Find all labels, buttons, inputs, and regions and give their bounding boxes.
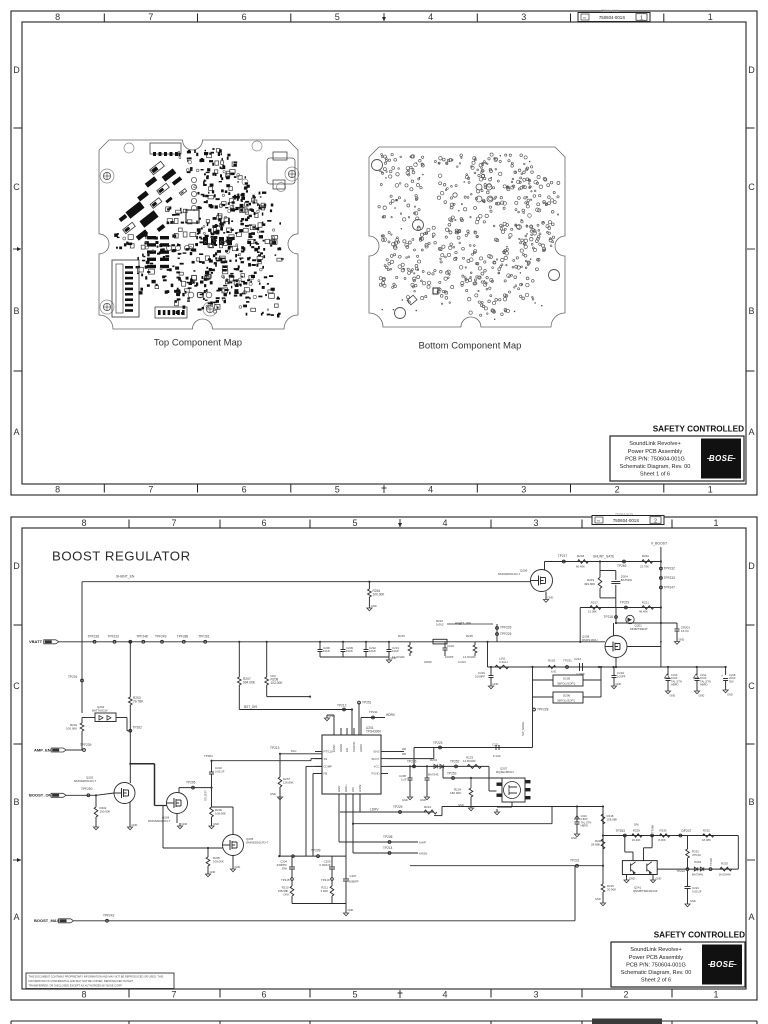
svg-text:+: + xyxy=(721,674,723,678)
svg-text:GND: GND xyxy=(270,792,276,796)
svg-text:GND: GND xyxy=(548,596,554,600)
svg-text:PCB P/N: 750604-001G: PCB P/N: 750604-001G xyxy=(626,962,686,968)
svg-text:7: 7 xyxy=(148,484,153,494)
svg-text:1: 1 xyxy=(640,15,643,21)
svg-text:BA754W: BA754W xyxy=(692,873,703,877)
svg-text:TP252: TP252 xyxy=(450,760,460,764)
svg-text:SW_NODE: SW_NODE xyxy=(521,722,525,736)
svg-text:1: 1 xyxy=(713,518,718,528)
svg-text:0.002: 0.002 xyxy=(436,622,444,626)
svg-text:A: A xyxy=(13,912,19,922)
svg-text:R218: R218 xyxy=(577,554,585,558)
svg-text:SHUNT_GATE: SHUNT_GATE xyxy=(593,555,614,559)
svg-text:TPF228: TPF228 xyxy=(537,708,549,712)
svg-text:RQ3E180GN: RQ3E180GN xyxy=(496,770,514,774)
svg-text:TP209: TP209 xyxy=(311,849,321,853)
svg-text:D: D xyxy=(748,65,755,75)
svg-text:103.00K: 103.00K xyxy=(271,681,284,685)
svg-text:SoundLink Revolve+: SoundLink Revolve+ xyxy=(629,441,680,447)
svg-text:R212: R212 xyxy=(424,805,432,809)
svg-text:8: 8 xyxy=(81,518,86,528)
svg-text:5: 5 xyxy=(352,989,357,999)
svg-text:GND+: GND+ xyxy=(344,784,348,792)
svg-text:BOSE: BOSE xyxy=(709,454,734,463)
svg-text:TPF233: TPF233 xyxy=(108,635,120,639)
svg-text:DNI: DNI xyxy=(284,892,289,896)
svg-text:4: 4 xyxy=(428,12,433,22)
svg-text:66.40K: 66.40K xyxy=(576,565,585,569)
svg-text:Power PCB Assembly: Power PCB Assembly xyxy=(628,449,683,455)
svg-text:100.00K: 100.00K xyxy=(100,809,111,813)
svg-text:GND: GND xyxy=(699,694,705,698)
svg-text:13.0OHM: 13.0OHM xyxy=(463,655,476,659)
svg-text:HDRV: HDRV xyxy=(359,744,363,752)
svg-text:GND: GND xyxy=(629,877,635,881)
svg-text:4: 4 xyxy=(428,484,433,494)
svg-text:3.3UH: 3.3UH xyxy=(499,660,508,664)
svg-text:BOSE: BOSE xyxy=(710,960,735,969)
svg-text:7: 7 xyxy=(171,989,176,999)
svg-text:2: 2 xyxy=(615,484,620,494)
svg-text:BAT54W: BAT54W xyxy=(621,578,633,582)
svg-text:GND: GND xyxy=(616,682,622,686)
svg-text:C203: C203 xyxy=(447,644,454,648)
svg-text:DAC: DAC xyxy=(291,749,297,753)
svg-text:R221: R221 xyxy=(642,600,650,604)
svg-text:100.00K: 100.00K xyxy=(213,859,224,863)
svg-text:HBPD: HBPD xyxy=(581,824,589,828)
svg-text:5: 5 xyxy=(335,484,340,494)
svg-text:TRANSFERRED, OR DISCLOSED EXCE: TRANSFERRED, OR DISCLOSED EXCEPT AS AUTH… xyxy=(29,983,123,987)
svg-text:TP201: TP201 xyxy=(68,675,78,679)
svg-text:BOOT: BOOT xyxy=(372,757,380,761)
svg-text:6.1UF: 6.1UF xyxy=(493,754,501,758)
svg-text:499.80K: 499.80K xyxy=(584,582,595,586)
svg-text:1: 1 xyxy=(708,484,713,494)
svg-text:8.06K: 8.06K xyxy=(658,838,665,842)
svg-text:29.7BK: 29.7BK xyxy=(133,699,144,703)
svg-text:18.08K: 18.08K xyxy=(702,838,711,842)
svg-text:R217: R217 xyxy=(591,601,599,605)
svg-text:C: C xyxy=(748,182,755,192)
svg-text:GND: GND xyxy=(690,899,696,903)
svg-text:1000PF: 1000PF xyxy=(475,674,485,678)
svg-text:R232: R232 xyxy=(703,829,710,833)
svg-text:A: A xyxy=(748,912,754,922)
svg-text:ISNS: ISNS xyxy=(373,750,380,754)
svg-text:1080PF: 1080PF xyxy=(349,879,359,883)
svg-text:TP221: TP221 xyxy=(570,859,580,863)
svg-text:750604-001S: 750604-001S xyxy=(601,9,619,13)
svg-text:DMN62D0LFD-7: DMN62D0LFD-7 xyxy=(246,841,269,845)
svg-text:6: 6 xyxy=(261,518,266,528)
svg-text:DMN62D0LFD-7: DMN62D0LFD-7 xyxy=(498,572,521,576)
svg-text:COMP: COMP xyxy=(324,765,333,769)
svg-text:BA754S: BA754S xyxy=(428,773,439,777)
svg-text:D205: D205 xyxy=(563,677,571,681)
svg-text:TPF238: TPF238 xyxy=(88,635,100,639)
svg-text:TP219: TP219 xyxy=(620,601,630,605)
svg-text:TP231: TP231 xyxy=(563,659,572,663)
svg-text:LOAN: LOAN xyxy=(458,660,466,664)
svg-text:TPF226: TPF226 xyxy=(500,626,512,630)
svg-text:BAT760CW: BAT760CW xyxy=(92,708,108,712)
svg-text:TP229: TP229 xyxy=(393,805,403,809)
svg-text:B: B xyxy=(13,797,19,807)
svg-text:TP205: TP205 xyxy=(186,781,196,785)
svg-text:10UF: 10UF xyxy=(346,649,353,653)
svg-text:THIS DOCUMENT CONTAINS PROPRIE: THIS DOCUMENT CONTAINS PROPRIETARY INFOR… xyxy=(29,975,164,979)
svg-text:SS_RST: SS_RST xyxy=(204,790,208,801)
svg-text:3: 3 xyxy=(521,484,526,494)
svg-text:A: A xyxy=(748,427,754,437)
svg-text:GND: GND xyxy=(329,714,335,718)
svg-text:KHIP: KHIP xyxy=(419,841,426,845)
svg-text:180.90K: 180.90K xyxy=(450,791,461,795)
svg-text:Sheet 1 of 6: Sheet 1 of 6 xyxy=(640,472,670,478)
svg-text:GND: GND xyxy=(595,897,601,901)
svg-text:6.81: 6.81 xyxy=(551,670,557,674)
svg-text:694.00K: 694.00K xyxy=(243,680,256,684)
svg-text:PGOOD: PGOOD xyxy=(352,742,356,752)
svg-text:Top Component Map: Top Component Map xyxy=(154,338,242,349)
svg-text:16.0OHM: 16.0OHM xyxy=(719,873,732,877)
svg-text:C207: C207 xyxy=(350,874,357,878)
svg-text:TP904: TP904 xyxy=(204,754,213,758)
svg-text:Schematic Diagram, Rev. 00: Schematic Diagram, Rev. 00 xyxy=(620,464,691,470)
svg-text:TP210: TP210 xyxy=(321,878,330,882)
svg-text:R220: R220 xyxy=(548,659,556,663)
svg-text:6: 6 xyxy=(242,484,247,494)
svg-text:DP207: DP207 xyxy=(682,829,692,833)
svg-text:10.0OHM: 10.0OHM xyxy=(392,655,405,659)
svg-text:R222: R222 xyxy=(642,554,650,558)
svg-text:475.00: 475.00 xyxy=(692,853,701,857)
svg-text:R225: R225 xyxy=(466,634,473,638)
svg-text:GND: GND xyxy=(348,908,354,912)
svg-text:GND: GND xyxy=(571,836,577,840)
svg-text:Schematic Diagram, Rev. 00: Schematic Diagram, Rev. 00 xyxy=(621,970,692,976)
svg-text:BOOST REGULATOR: BOOST REGULATOR xyxy=(52,549,191,564)
svg-text:100PF: 100PF xyxy=(445,655,454,659)
svg-text:LDRV: LDRV xyxy=(370,808,379,812)
svg-text:100.00K: 100.00K xyxy=(373,592,386,596)
svg-text:GND: GND xyxy=(679,638,685,642)
svg-text:3: 3 xyxy=(533,518,538,528)
svg-text:TPF250: TPF250 xyxy=(81,787,93,791)
svg-text:0.033UF: 0.033UF xyxy=(319,863,330,867)
svg-text:35V: 35V xyxy=(729,679,734,683)
svg-text:TPF232: TPF232 xyxy=(664,567,676,571)
svg-text:TP208: TP208 xyxy=(383,835,393,839)
svg-text:R215: R215 xyxy=(398,634,405,638)
svg-text:FB: FB xyxy=(324,772,328,776)
svg-text:0.01UF: 0.01UF xyxy=(692,889,702,893)
svg-text:4: 4 xyxy=(442,518,447,528)
svg-text:Sheet 2 of 6: Sheet 2 of 6 xyxy=(641,978,671,984)
svg-text:750604-001S: 750604-001S xyxy=(599,15,625,20)
svg-text:750604-001S: 750604-001S xyxy=(615,512,633,516)
svg-text:TPF286: TPF286 xyxy=(177,635,189,639)
svg-text:PCB P/N: 750604-001G: PCB P/N: 750604-001G xyxy=(625,456,685,462)
svg-text:12.8OHM: 12.8OHM xyxy=(463,759,476,763)
svg-text:8: 8 xyxy=(55,484,60,494)
svg-text:5: 5 xyxy=(352,518,357,528)
svg-text:DMN62D0LFD-7: DMN62D0LFD-7 xyxy=(74,779,97,783)
svg-text:INFORMATION IS CONFIDENTIAL AN: INFORMATION IS CONFIDENTIAL AND MAY NOT … xyxy=(29,979,134,983)
svg-text:TPF248: TPF248 xyxy=(136,635,148,639)
svg-text:3: 3 xyxy=(533,989,538,999)
svg-text:108.08K: 108.08K xyxy=(215,811,226,815)
svg-text:B: B xyxy=(748,797,754,807)
svg-text:AMP_EN: AMP_EN xyxy=(34,747,51,752)
svg-text:4: 4 xyxy=(442,989,447,999)
svg-text:D: D xyxy=(748,561,755,571)
svg-text:DMP2160U: DMP2160U xyxy=(582,638,598,642)
svg-text:1: 1 xyxy=(708,12,713,22)
svg-text:Bottom Component Map: Bottom Component Map xyxy=(419,341,522,352)
svg-text:TP211: TP211 xyxy=(369,710,378,714)
svg-text:A: A xyxy=(13,427,19,437)
svg-text:10UF: 10UF xyxy=(323,649,330,653)
svg-text:D: D xyxy=(13,65,20,75)
svg-text:B: B xyxy=(13,306,19,316)
svg-text:8: 8 xyxy=(81,989,86,999)
svg-text:QNMBT3904W13F: QNMBT3904W13F xyxy=(633,889,658,893)
svg-text:7: 7 xyxy=(171,518,176,528)
svg-text:BOOST_MAX: BOOST_MAX xyxy=(34,918,60,923)
svg-text:TPF247: TPF247 xyxy=(664,586,676,590)
svg-text:TPF242: TPF242 xyxy=(103,914,115,918)
svg-text:TPF239: TPF239 xyxy=(80,743,92,747)
svg-text:GND: GND xyxy=(132,823,138,827)
svg-text:TP223: TP223 xyxy=(433,741,443,745)
svg-text:10UF: 10UF xyxy=(369,649,376,653)
svg-text:D203: D203 xyxy=(694,860,701,864)
svg-text:100.00K: 100.00K xyxy=(66,726,77,730)
svg-text:TP213: TP213 xyxy=(270,746,280,750)
svg-text:PGND: PGND xyxy=(371,772,379,776)
svg-text:TPF233: TPF233 xyxy=(664,576,676,580)
svg-text:BOOST_ON: BOOST_ON xyxy=(29,793,52,798)
svg-text:TP216: TP216 xyxy=(407,760,417,764)
svg-text:1UF: 1UF xyxy=(401,777,407,781)
svg-text:VCC: VCC xyxy=(374,765,380,769)
svg-text:HVATT_IND: HVATT_IND xyxy=(455,621,472,625)
svg-text:10UF: 10UF xyxy=(392,649,399,653)
svg-text:GND: GND xyxy=(235,865,241,869)
svg-text:SAFETY CONTROLLED: SAFETY CONTROLLED xyxy=(654,931,745,940)
svg-text:D201: D201 xyxy=(430,758,438,762)
svg-text:MNBIT3904T: MNBIT3904T xyxy=(630,627,648,631)
svg-text:16.0V: 16.0V xyxy=(681,629,689,633)
svg-text:116.80K: 116.80K xyxy=(283,780,294,784)
svg-text:100PF: 100PF xyxy=(617,674,626,678)
svg-text:TP263: TP263 xyxy=(617,564,627,568)
svg-text:D: D xyxy=(13,561,20,571)
svg-text:TPF249: TPF249 xyxy=(155,635,167,639)
svg-text:EN: EN xyxy=(345,748,349,752)
svg-text:VBATT: VBATT xyxy=(29,639,43,644)
svg-text:TPF225: TPF225 xyxy=(500,632,512,636)
svg-text:TP214: TP214 xyxy=(383,846,393,850)
svg-text:C: C xyxy=(13,681,20,691)
svg-text:1: 1 xyxy=(713,989,718,999)
svg-text:TP212: TP212 xyxy=(337,704,347,708)
svg-text:3.92K: 3.92K xyxy=(320,889,328,893)
svg-text:SAFETY CONTROLLED: SAFETY CONTROLLED xyxy=(653,425,744,434)
svg-text:Power PCB Assembly: Power PCB Assembly xyxy=(629,955,684,961)
svg-text:R229: R229 xyxy=(633,829,640,833)
svg-text:HBPD: HBPD xyxy=(671,683,679,687)
svg-text:13.08K: 13.08K xyxy=(588,609,597,613)
svg-text:D206: D206 xyxy=(563,694,571,698)
svg-text:C: C xyxy=(13,182,20,192)
svg-text:ss: ss xyxy=(597,519,601,523)
svg-text:GND: GND xyxy=(727,693,733,697)
svg-text:GND: GND xyxy=(213,822,219,826)
svg-text:GND: GND xyxy=(656,877,662,881)
svg-text:TP202: TP202 xyxy=(133,726,143,730)
svg-text:V_BOOST: V_BOOST xyxy=(651,542,667,546)
svg-text:SS: SS xyxy=(324,757,328,761)
svg-text:6: 6 xyxy=(242,12,247,22)
svg-text:TP253: TP253 xyxy=(447,772,457,776)
svg-text:AGND: AGND xyxy=(339,744,343,752)
svg-text:36POL/SOP1: 36POL/SOP1 xyxy=(557,699,576,703)
svg-text:TPS43060: TPS43060 xyxy=(366,730,381,734)
svg-text:6: 6 xyxy=(261,989,266,999)
svg-text:GND: GND xyxy=(420,798,426,802)
svg-text:DMN62D0LFD-7: DMN62D0LFD-7 xyxy=(148,819,171,823)
svg-text:DNI: DNI xyxy=(634,823,639,827)
svg-text:KHSN: KHSN xyxy=(419,852,427,856)
svg-text:750604-001S: 750604-001S xyxy=(613,518,639,523)
svg-text:GND: GND xyxy=(371,604,377,608)
svg-text:HBPD: HBPD xyxy=(700,683,708,687)
svg-text:28.6BK: 28.6BK xyxy=(591,842,601,846)
svg-text:GND: GND xyxy=(493,682,499,686)
svg-text:2: 2 xyxy=(623,989,628,999)
svg-text:GND: GND xyxy=(402,798,408,802)
svg-text:36POL/SOP1: 36POL/SOP1 xyxy=(557,682,576,686)
svg-text:BST_DIS: BST_DIS xyxy=(244,705,257,709)
svg-text:R230: R230 xyxy=(660,829,667,833)
svg-text:46.40K: 46.40K xyxy=(639,610,648,614)
svg-text:3: 3 xyxy=(521,12,526,22)
svg-text:TP266: TP266 xyxy=(651,825,655,833)
svg-text:2: 2 xyxy=(654,518,657,524)
svg-text:DNI: DNI xyxy=(282,866,287,870)
svg-text:TP218: TP218 xyxy=(604,615,614,619)
svg-text:8: 8 xyxy=(55,12,60,22)
svg-text:GND: GND xyxy=(182,822,188,826)
svg-text:RT/CLK: RT/CLK xyxy=(324,750,334,754)
svg-text:7: 7 xyxy=(148,12,153,22)
svg-text:33.20K: 33.20K xyxy=(632,838,641,842)
svg-text:158.08K: 158.08K xyxy=(607,817,618,821)
svg-text:TP215: TP215 xyxy=(281,878,290,882)
svg-text:TP126: TP126 xyxy=(709,858,713,866)
svg-text:Q206: Q206 xyxy=(520,569,528,573)
svg-text:5: 5 xyxy=(335,12,340,22)
svg-text:HDRV: HDRV xyxy=(386,713,396,717)
svg-text:GND: GND xyxy=(210,870,216,874)
svg-text:20.90K: 20.90K xyxy=(607,887,616,891)
svg-text:TP217: TP217 xyxy=(558,554,568,558)
svg-text:C214: C214 xyxy=(574,657,582,661)
svg-text:LDRV: LDRV xyxy=(358,784,362,792)
svg-text:GND: GND xyxy=(337,786,341,792)
svg-text:VIN: VIN xyxy=(351,787,355,792)
svg-text:0.01UF: 0.01UF xyxy=(215,769,225,773)
svg-text:TP253: TP253 xyxy=(616,829,626,833)
svg-text:SHUNT_EN: SHUNT_EN xyxy=(116,575,135,579)
svg-text:TPF261: TPF261 xyxy=(198,635,210,639)
svg-text:R233: R233 xyxy=(721,862,728,866)
svg-text:GND: GND xyxy=(670,694,676,698)
svg-text:ss: ss xyxy=(583,16,587,20)
svg-text:SoundLink Revolve+: SoundLink Revolve+ xyxy=(630,947,681,953)
svg-text:B: B xyxy=(748,306,754,316)
svg-text:23.70K: 23.70K xyxy=(640,565,649,569)
svg-text:GNDF: GNDF xyxy=(424,660,432,664)
svg-text:TP251: TP251 xyxy=(362,701,372,705)
svg-text:C: C xyxy=(748,681,755,691)
